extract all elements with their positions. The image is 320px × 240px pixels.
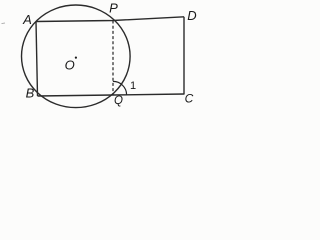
stray scan mark left edge (2, 22, 6, 25)
side BC (bottom, through Q) (38, 94, 185, 96)
side AD (top, through P) (36, 17, 184, 22)
svg-text:C: C (185, 92, 194, 106)
svg-text:B: B (26, 86, 35, 101)
svg-text:P: P (109, 0, 118, 15)
svg-text:D: D (187, 8, 196, 23)
svg-text:O: O (65, 57, 75, 72)
angle arc 1 at Q (113, 81, 127, 94)
side DC (right) (183, 17, 185, 94)
svg-text:A: A (22, 12, 32, 27)
svg-text:Q: Q (114, 95, 123, 107)
circle O' (22, 5, 131, 108)
svg-text:1: 1 (130, 80, 136, 92)
prime dot of O' (75, 57, 77, 59)
dashed chord PQ (112, 21, 114, 96)
side AB (left) (36, 22, 38, 97)
